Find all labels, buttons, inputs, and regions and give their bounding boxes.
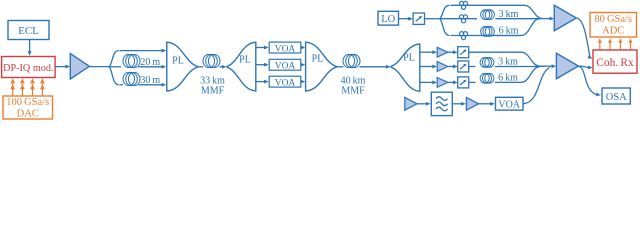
wire row2 amp to attenuator <box>448 66 455 68</box>
svg-text:PL: PL <box>172 55 184 66</box>
booster amplifier <box>70 54 89 80</box>
fiber coil 20 m <box>123 54 135 67</box>
LO bottom wire <box>451 35 522 37</box>
svg-text:DAC: DAC <box>17 109 39 120</box>
LO merge arrow <box>540 18 551 20</box>
svg-text:PL: PL <box>312 54 324 65</box>
wire DP-IQ to booster amp <box>55 66 67 68</box>
wire VOA1 to PL3 <box>301 47 302 49</box>
svg-text:100 GSa/s: 100 GSa/s <box>6 97 49 108</box>
LO attenuator <box>413 13 424 24</box>
row3 attenuator <box>458 77 469 88</box>
photonic lantern PL1 <box>167 42 198 91</box>
row3 amplifier <box>437 78 448 88</box>
svg-text:PL: PL <box>403 53 415 64</box>
wire ECL to DP-IQ mod <box>29 40 31 53</box>
row2 amplifier <box>437 62 448 72</box>
DAC box 100 GSa/s <box>3 96 53 119</box>
wire PL1 to 33km coil <box>197 66 203 68</box>
ADC arrow 2 <box>609 41 611 49</box>
ADC arrow 4 <box>630 41 632 49</box>
svg-text:VOA: VOA <box>275 44 296 54</box>
DAC arrow 2 <box>21 84 23 96</box>
wire to OSA <box>579 66 598 95</box>
LO bottom wire b <box>495 35 521 37</box>
wire LO to attenuator <box>399 18 410 20</box>
VOA box 1 <box>269 42 301 53</box>
fiber coil 6 km signal <box>480 73 489 83</box>
wire plain path to PL1 <box>120 50 164 52</box>
wire PL2 to VOA3 <box>256 81 266 83</box>
fiber coil 6 km LO <box>481 27 490 37</box>
fiber coil 33 km MMF <box>203 54 215 67</box>
wire VOA to merge <box>523 68 550 104</box>
LO top wire <box>451 4 525 6</box>
wire PL2 to VOA1 <box>256 47 266 49</box>
svg-text:LO: LO <box>381 14 395 25</box>
svg-text:20 m: 20 m <box>140 57 160 68</box>
wire coil to PL2 <box>220 66 224 68</box>
fiber coil 30 m <box>123 72 135 85</box>
wire row2 to coil <box>469 66 476 68</box>
ADC box 80 GSa/s <box>590 13 637 38</box>
LO box <box>378 11 399 25</box>
wire amp to splitter <box>89 66 109 68</box>
photonic lantern PL4 <box>391 44 420 91</box>
svg-text:Coh. Rx: Coh. Rx <box>596 57 634 69</box>
ADC arrow 3 <box>619 41 621 49</box>
second probe amplifier <box>466 97 478 110</box>
LO merge bottom <box>521 19 539 36</box>
LO mid wire b <box>495 18 540 20</box>
wire to Coh Rx <box>579 66 590 68</box>
LO fan-out bottom <box>440 19 449 36</box>
wire PL4 to amp row1 <box>420 51 434 53</box>
Coh Rx box <box>593 50 637 73</box>
wire VOA3 to PL3 <box>301 81 302 83</box>
wire row1 amp to attenuator <box>448 51 455 53</box>
optical filter box <box>431 92 452 115</box>
wire row2 to merge <box>495 65 545 67</box>
wire attenuator to fan-out <box>425 18 441 20</box>
LO merge top <box>524 5 542 18</box>
DAC arrow 4 <box>41 84 43 96</box>
wire amp to filter <box>417 103 427 105</box>
fan-out to 20m path <box>109 51 119 67</box>
wire coil to PL4 <box>360 66 388 68</box>
LO fan-out top <box>440 5 449 18</box>
probe amplifier <box>405 97 417 110</box>
wire row1 to merge <box>469 52 539 66</box>
svg-text:VOA: VOA <box>275 62 296 72</box>
fan-out middle wire <box>109 66 121 68</box>
svg-text:DP-IQ mod.: DP-IQ mod. <box>3 63 53 74</box>
wire row3 amp to attenuator <box>448 81 455 83</box>
VOA box 2 <box>269 59 301 70</box>
row2 attenuator <box>458 61 469 72</box>
wire 30m coil to PL1 <box>139 84 164 86</box>
VOA box bottom <box>496 97 524 110</box>
svg-text:80 GSa/s: 80 GSa/s <box>594 14 632 25</box>
row1 attenuator <box>458 47 469 58</box>
svg-text:OSA: OSA <box>606 92 627 103</box>
photonic lantern PL3 <box>306 42 337 91</box>
svg-text:ECL: ECL <box>18 25 39 37</box>
LO top polarization controller <box>460 1 464 5</box>
svg-text:30 m: 30 m <box>140 75 160 86</box>
LO mid wire <box>440 18 477 20</box>
LO bottom polarization controller <box>460 32 464 36</box>
svg-text:VOA: VOA <box>498 100 520 111</box>
receiver amplifier <box>556 53 578 79</box>
photonic lantern PL2 <box>227 42 256 91</box>
ADC arrow 1 <box>599 41 601 49</box>
row1 amplifier <box>437 47 448 57</box>
wire amp to VOA <box>478 103 491 105</box>
signal merge arrow <box>539 65 553 67</box>
wire PL4 to amp row3 <box>420 81 434 83</box>
wire filter to amp <box>453 103 463 105</box>
DAC arrow 3 <box>32 84 34 96</box>
svg-text:VOA: VOA <box>275 78 296 88</box>
fiber coil 3 km signal <box>480 58 489 68</box>
wire row3 to merge <box>495 67 539 83</box>
svg-text:ADC: ADC <box>602 26 624 37</box>
LO mid polarization controller <box>460 15 464 19</box>
DAC arrow 1 <box>12 84 14 96</box>
svg-text:MMF: MMF <box>341 86 365 97</box>
wire PL3 to 40km coil <box>336 66 343 68</box>
VOA box 3 <box>269 76 301 87</box>
svg-text:PL: PL <box>239 54 251 65</box>
fan-out to 30m path <box>109 67 119 85</box>
wire row3 to coil <box>469 81 476 83</box>
DP-IQ modulator box <box>2 57 56 78</box>
fiber coil 3 km LO <box>481 10 490 20</box>
wire VOA2 to PL3 <box>301 64 302 66</box>
wire PL4 to amp row2 <box>420 66 434 68</box>
wire 20m coil to PL1 <box>139 66 164 68</box>
OSA box <box>602 88 630 104</box>
ECL box <box>8 21 49 40</box>
svg-text:MMF: MMF <box>201 86 225 97</box>
LO amplifier <box>554 5 576 31</box>
fiber coil 40 km MMF <box>343 54 355 67</box>
wire PL2 to VOA2 <box>256 64 266 66</box>
wire LO amp to Coh Rx <box>577 18 590 57</box>
